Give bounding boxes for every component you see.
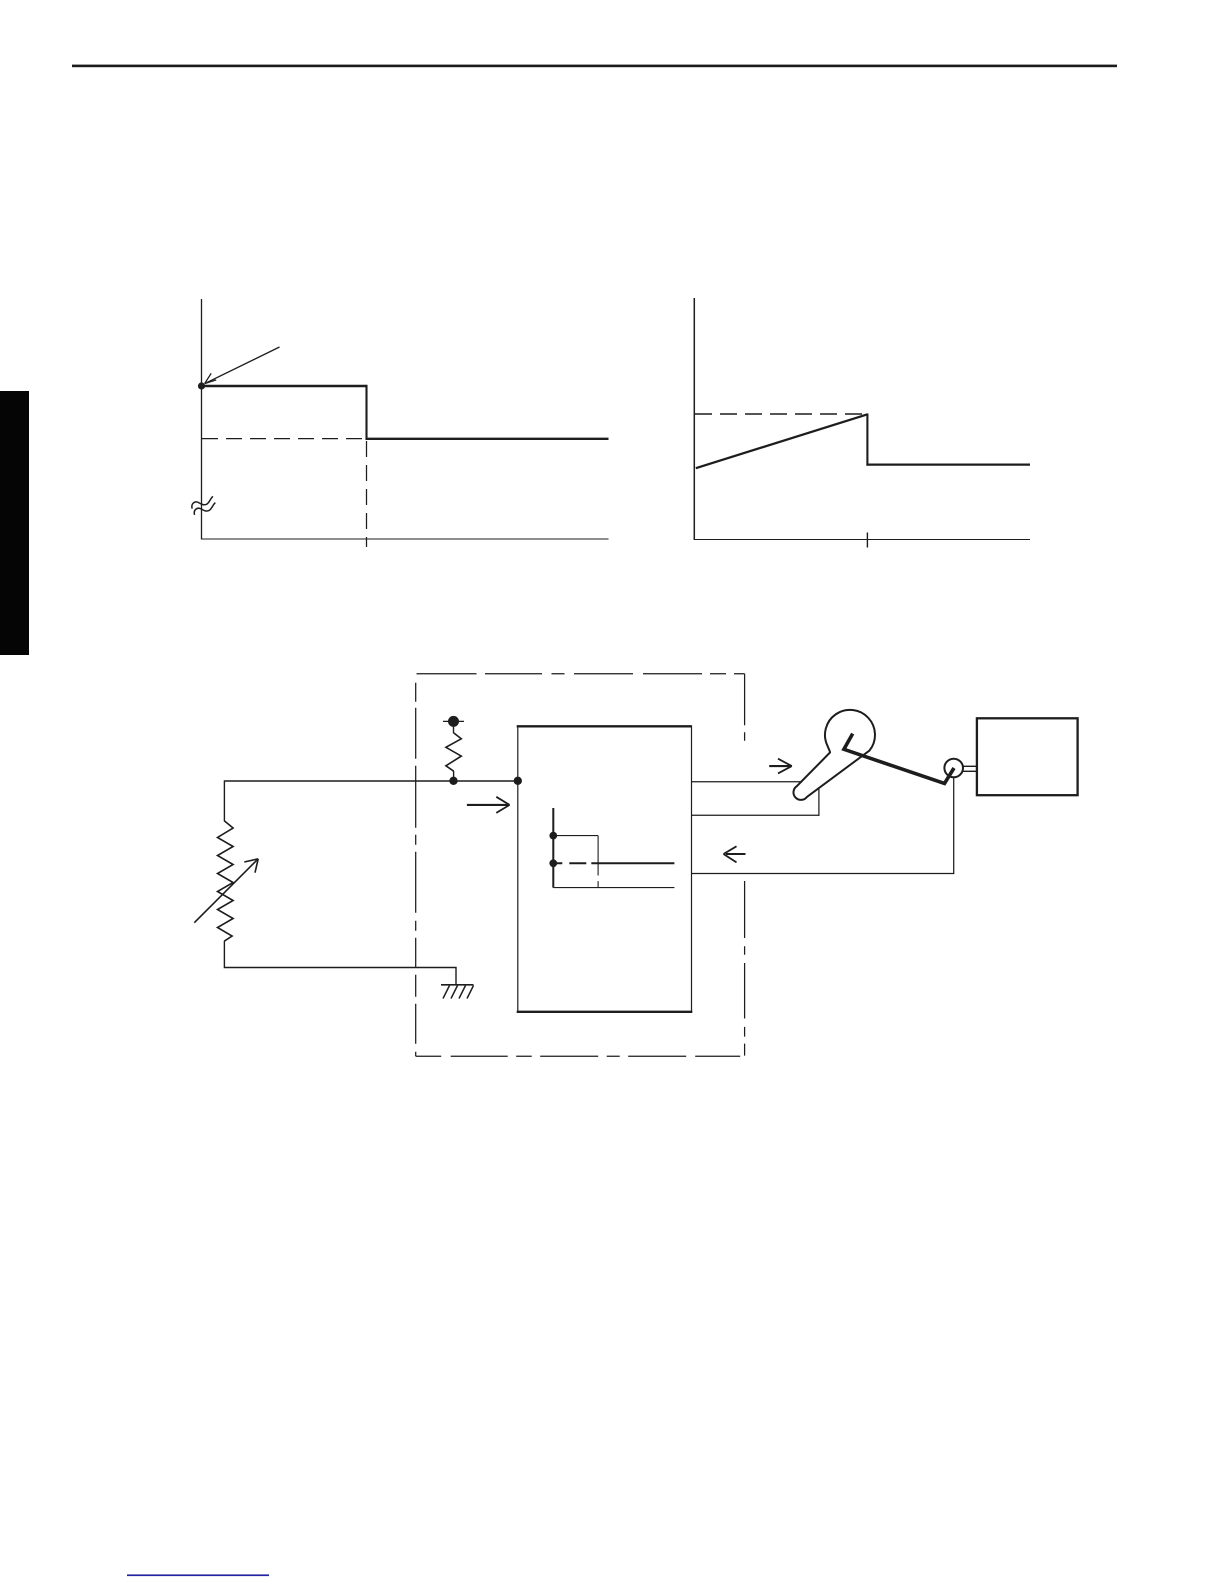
link rod bbox=[844, 734, 954, 784]
arrow input signal bbox=[467, 797, 510, 813]
variable resistor arrow bbox=[194, 859, 258, 923]
footer blue rule bbox=[127, 1574, 269, 1576]
actuator box bbox=[977, 718, 1078, 795]
throttle lever bbox=[793, 710, 875, 800]
graph 1 y-axis bbox=[201, 299, 203, 540]
mini graph output level line bbox=[553, 862, 674, 864]
junction dot pull-up node bbox=[449, 777, 457, 785]
wire sensor return bbox=[224, 941, 456, 985]
wire feedback horizontal bbox=[692, 873, 955, 875]
page edge tab bbox=[0, 391, 29, 655]
mini graph vertical dash bbox=[597, 881, 599, 888]
graph 1 step trace high segment bbox=[202, 385, 367, 387]
graph 1 step trace low segment bbox=[366, 438, 609, 440]
wire supply to resistor bbox=[453, 721, 455, 733]
junction dot box input bbox=[514, 777, 522, 785]
graph 1 pointer arrow bbox=[205, 347, 280, 384]
header rule bbox=[72, 65, 1117, 68]
wire output upper channel bottom bbox=[692, 814, 819, 816]
graph 2 drop trace bbox=[866, 414, 868, 466]
graph 2 ramp trace bbox=[696, 414, 868, 468]
graph 2 x-axis bbox=[694, 539, 1030, 541]
mini graph node dot lower bbox=[549, 859, 557, 867]
arrow feedback direction bbox=[724, 846, 746, 862]
arrow output direction bbox=[769, 759, 792, 774]
wire sensor signal bbox=[224, 780, 517, 782]
resistor pull-up bbox=[446, 733, 461, 771]
control unit box bbox=[517, 726, 693, 1013]
ECU boundary top edge bbox=[417, 673, 745, 675]
ground bbox=[441, 985, 474, 999]
graph 1 dashed time line bbox=[366, 441, 368, 547]
graph 1 x-axis bbox=[201, 538, 609, 540]
ECU boundary left edge bbox=[415, 674, 417, 1056]
mini graph axis bbox=[552, 808, 554, 888]
graph 2 axis tick bbox=[866, 533, 868, 548]
link rods to actuator bbox=[963, 766, 978, 771]
graph 1 axis break squiggle bbox=[192, 496, 215, 515]
mini graph upper level line bbox=[553, 835, 598, 837]
graph 2 low trace bbox=[866, 463, 1030, 465]
pivot circle bbox=[944, 759, 963, 778]
wire feedback vertical bbox=[953, 777, 955, 873]
node B+ supply dot bbox=[448, 716, 459, 727]
ECU boundary bottom edge bbox=[416, 1055, 745, 1057]
wire output channel end bbox=[818, 782, 820, 816]
graph 1 step trace drop bbox=[365, 385, 367, 440]
mini graph vertical thin line bbox=[597, 836, 599, 876]
mini graph baseline bbox=[553, 887, 674, 889]
wire output upper channel top bbox=[692, 781, 819, 783]
graph 1 dashed level line bbox=[202, 438, 366, 440]
resistor variable sensor bbox=[218, 821, 234, 941]
graph 1 point marker bbox=[198, 382, 205, 389]
ECU boundary right edge bbox=[744, 674, 746, 1056]
mini graph node dot upper bbox=[549, 832, 557, 840]
graph 2 dashed level line bbox=[695, 413, 867, 415]
supply bar bbox=[443, 720, 464, 722]
wire sensor left leg bbox=[223, 780, 225, 821]
graph 2 y-axis bbox=[693, 298, 695, 540]
wire resistor to node bbox=[453, 771, 455, 781]
